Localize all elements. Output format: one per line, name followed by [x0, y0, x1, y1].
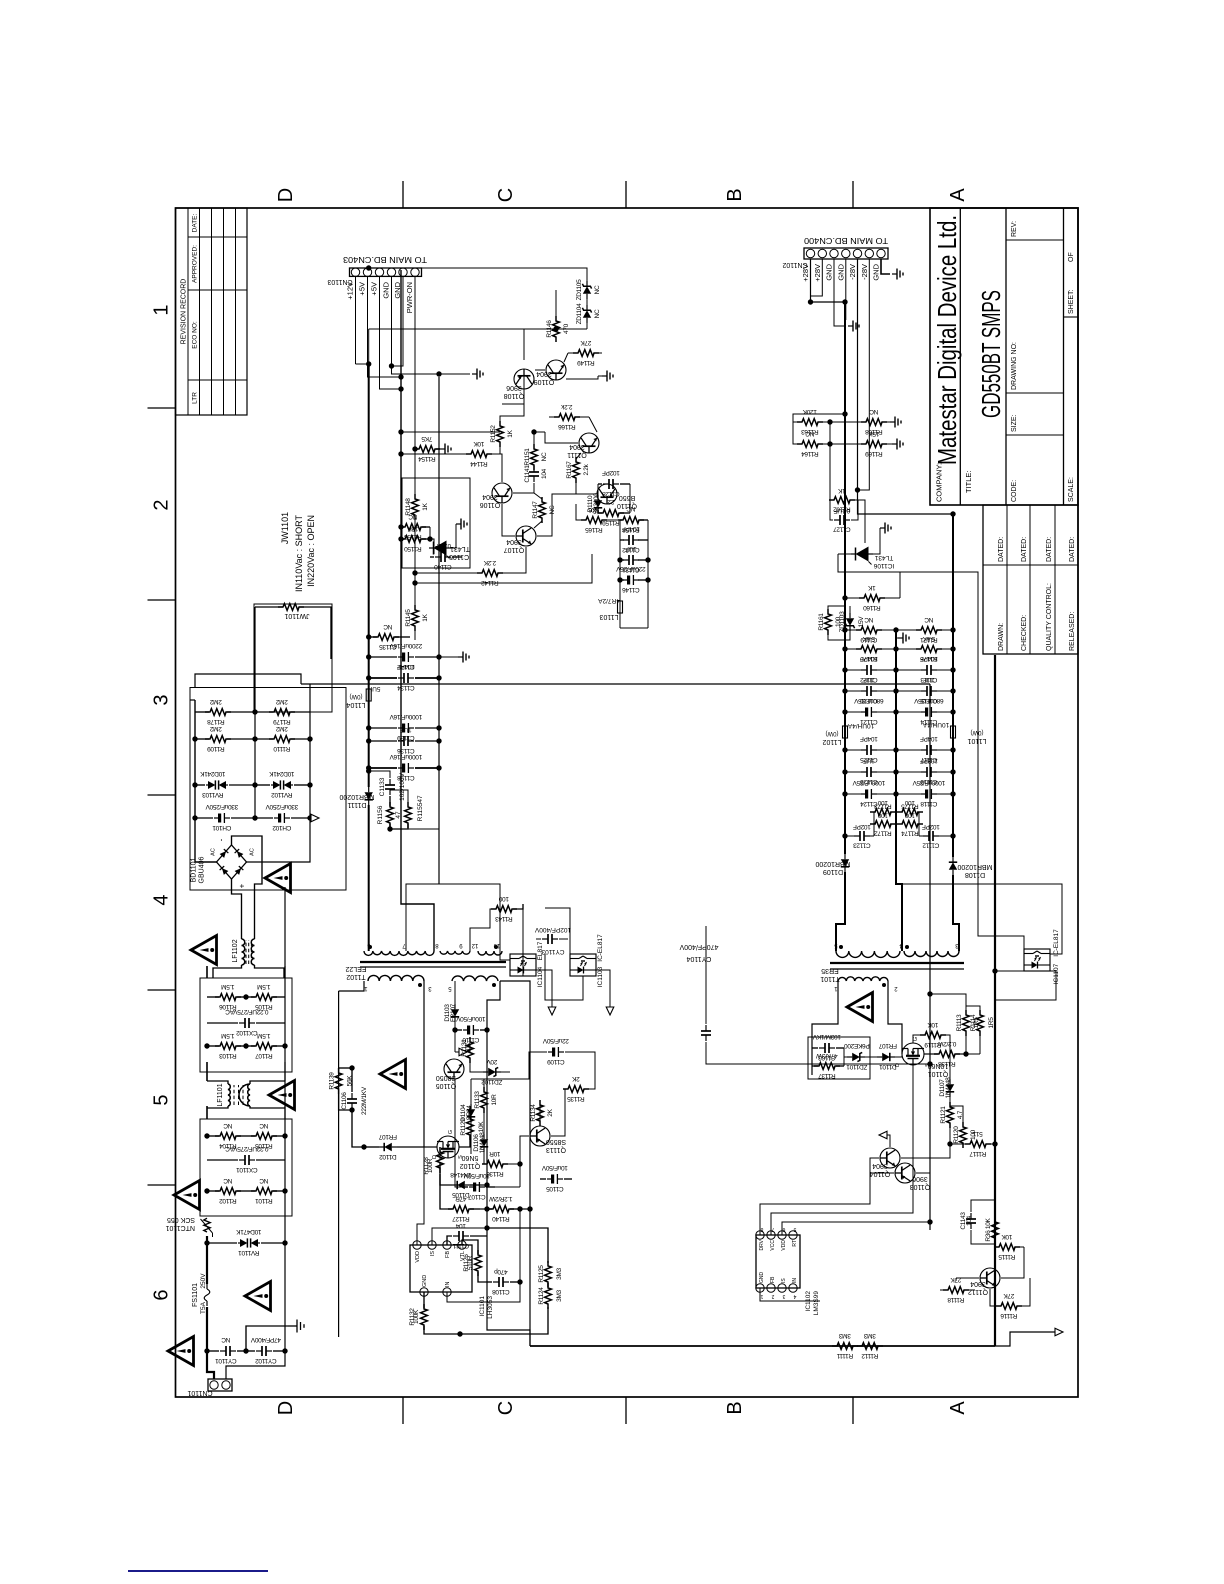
svg-text:Q1106: Q1106: [480, 501, 501, 508]
svg-text:-: -: [217, 838, 226, 841]
svg-text:10D471K: 10D471K: [236, 1228, 262, 1235]
svg-text:C1115: C1115: [920, 697, 937, 704]
svg-text:2.2K: 2.2K: [483, 559, 496, 566]
svg-text:56K: 56K: [347, 1075, 354, 1087]
wire LF1101 to RC box: [206, 1062, 208, 1081]
svg-text:GND: GND: [422, 1275, 428, 1287]
svg-text:3M3: 3M3: [556, 1267, 563, 1279]
capacitor C1127 0.1UF: [830, 500, 833, 520]
wire bottom bus rail: [994, 655, 996, 1346]
svg-text:Q1113: Q1113: [546, 1146, 566, 1153]
snubber branch R1156 C1133: [366, 768, 371, 773]
svg-text:1.5M: 1.5M: [221, 983, 234, 990]
svg-text:CHECKED:: CHECKED:: [1021, 615, 1028, 651]
svg-text:DATED:: DATED:: [1069, 537, 1076, 562]
svg-text:2M2: 2M2: [209, 725, 221, 732]
svg-text:R1164: R1164: [801, 450, 819, 457]
svg-text:R1174: R1174: [901, 830, 919, 837]
svg-text:P6KE200: P6KE200: [844, 1042, 870, 1049]
svg-text:ER35: ER35: [821, 967, 839, 974]
warning triangle below LF1101: [269, 1081, 295, 1110]
filter capacitor C1134 104PF: [369, 677, 397, 679]
svg-text:5UH: 5UH: [367, 685, 380, 692]
svg-text:IC-EL817: IC-EL817: [1053, 929, 1060, 957]
svg-text:+28V: +28V: [813, 264, 822, 282]
svg-text:6: 6: [151, 1289, 173, 1300]
svg-text:R1152: R1152: [490, 425, 497, 443]
svg-text:R1160: R1160: [863, 604, 881, 611]
resistor R1127 47R: [470, 1208, 480, 1210]
svg-text:10R: 10R: [489, 1150, 501, 1157]
zener ZD1105 NC: [582, 281, 591, 299]
zener ZD1103 15V: [845, 613, 854, 631]
svg-text:R1154: R1154: [418, 455, 436, 462]
svg-text:2K: 2K: [571, 1075, 579, 1082]
svg-text:100K: 100K: [413, 1309, 420, 1324]
controller IC1102 LM3S99: [756, 1235, 800, 1288]
wire B+ to T1101 primary pin1: [812, 981, 838, 1075]
svg-text:Q1107: Q1107: [504, 546, 525, 553]
resistor R1135 2K: [563, 1086, 589, 1093]
scale sheet cells: [1064, 316, 1079, 318]
feedback arrow 2: [596, 970, 610, 1010]
gate resistor R1129 10K: [459, 1136, 470, 1147]
svg-text:R1159: R1159: [602, 519, 620, 526]
svg-text:DATED:: DATED:: [1021, 537, 1028, 562]
svg-text:C: C: [495, 1401, 517, 1415]
resistor R1132 100K: [423, 1292, 425, 1308]
svg-text:3M3: 3M3: [556, 1289, 563, 1301]
svg-text:ZD1105: ZD1105: [576, 279, 583, 301]
+5V rail: [400, 270, 402, 640]
optocoupler IC1107 IC-EL817: [1024, 949, 1050, 971]
rectifier D1108 MBR10200: [949, 857, 957, 875]
transformer T1102 primary winding: [368, 975, 424, 981]
output ground symbol: [898, 633, 909, 644]
svg-text:CODE:: CODE:: [1011, 480, 1018, 502]
svg-text:DRAWING NO:: DRAWING NO:: [1011, 342, 1018, 390]
svg-text:D1111: D1111: [347, 801, 366, 808]
svg-text:10K: 10K: [1001, 1233, 1013, 1240]
svg-text:D1109: D1109: [823, 868, 843, 875]
regulator divider R1163 120K: [797, 419, 823, 426]
resistor R1142 2.2K: [477, 570, 503, 577]
warning triangle near fuse: [245, 1282, 271, 1311]
wire Q1102 drain: [424, 1146, 437, 1148]
wire snubber to ground rail: [390, 828, 439, 830]
svg-text:3: 3: [782, 1293, 785, 1299]
source resistor R1138 0.2/2W: [924, 1053, 938, 1055]
svg-text:B: B: [724, 1401, 746, 1414]
svg-text:FR107: FR107: [878, 1042, 897, 1049]
diode D1104 SR34: [470, 1079, 472, 1104]
svg-text:+28V: +28V: [801, 264, 810, 282]
transformer T1101 core: [830, 968, 964, 970]
shunt regulator IC1106 TL431: [851, 547, 873, 565]
resistor R1145 1K inline: [414, 629, 416, 640]
resistor R1161 100: [825, 609, 832, 635]
capacitor C1108 470p: [487, 1281, 492, 1283]
svg-text:R1103: R1103: [219, 1052, 237, 1059]
capacitor C1132 104PF: [620, 539, 624, 541]
resistor R1159 22: [598, 512, 602, 514]
resistor R1168 NC: [861, 419, 887, 426]
clamp diode D1102 FR107: [397, 1146, 424, 1148]
svg-text:Q1101: Q1101: [928, 1070, 949, 1077]
filter capacitor C1142 2200uF/16V: [369, 656, 397, 658]
svg-text:C1135: C1135: [379, 643, 397, 650]
svg-text:2: 2: [151, 499, 173, 510]
svg-text:IS: IS: [430, 1251, 436, 1257]
svg-text:DATED:: DATED:: [998, 537, 1005, 562]
svg-text:B: B: [724, 188, 746, 201]
svg-text:4: 4: [151, 894, 173, 905]
svg-text:3904: 3904: [970, 1280, 986, 1287]
resistor R1118 27K: [943, 1287, 969, 1294]
svg-text:1.5M: 1.5M: [221, 1032, 234, 1039]
svg-text:FB: FB: [445, 1251, 451, 1258]
svg-text:Q1102: Q1102: [460, 1162, 481, 1169]
capacitor C1143 104: [966, 1213, 976, 1229]
mosfet Q1101 10N60: [902, 1043, 924, 1065]
PWR-ON rail R1148 1K inline: [414, 518, 416, 607]
resistor R1128 100R: [439, 1163, 441, 1174]
snubber resistor R1155 47: [390, 824, 408, 829]
svg-text:3904: 3904: [506, 538, 522, 545]
svg-text:C1107: C1107: [468, 1193, 486, 1200]
svg-text:LTR: LTR: [192, 392, 199, 404]
CN1102 wires: [811, 259, 846, 302]
svg-text:1.5M: 1.5M: [257, 1032, 270, 1039]
resistor R1167 2.2k: [573, 457, 580, 483]
svg-text:SIZE:: SIZE:: [1011, 414, 1018, 432]
X-cap box: [200, 1119, 292, 1216]
wire IC1101 ground leg: [447, 1209, 520, 1302]
clamp resistor R1139 56K: [339, 1067, 352, 1069]
svg-text:27K: 27K: [1003, 1292, 1015, 1299]
svg-text:NC: NC: [259, 1177, 268, 1184]
ground rail: [895, 630, 897, 846]
resistor R1116 27K: [996, 1303, 1022, 1310]
capacitor C1117 104PF: [896, 749, 922, 751]
svg-text:10: 10: [493, 942, 500, 948]
svg-text:2: 2: [771, 1293, 774, 1299]
svg-text:47R: 47R: [455, 1195, 467, 1202]
resistor R1124 3M3: [460, 1307, 548, 1334]
rectifier diode D1111 MBR10200 inline +12V rail: [368, 805, 370, 951]
optocoupler IC1103 IC-EL817: [570, 954, 596, 976]
svg-text:R1155: R1155: [417, 802, 424, 821]
svg-text:2M2: 2M2: [275, 698, 287, 705]
svg-text:330uF/250V: 330uF/250V: [205, 803, 238, 810]
svg-text:R1143: R1143: [495, 915, 513, 922]
wire T1101 pin5 to +28 rail: [836, 872, 845, 951]
svg-text:3: 3: [151, 694, 173, 705]
connector CN1102: [804, 248, 888, 259]
svg-text:100: 100: [904, 799, 915, 806]
svg-text:C1127: C1127: [833, 526, 851, 533]
capacitor C1140 0.1UF: [430, 556, 434, 558]
capacitor C1115 1UF: [896, 690, 922, 692]
svg-text:R1111: R1111: [836, 1352, 853, 1359]
svg-text:C1123: C1123: [853, 842, 871, 849]
svg-text:R1145: R1145: [405, 609, 412, 627]
resistor R1144 10K: [466, 451, 492, 458]
svg-text:IC1105: IC1105: [449, 553, 471, 560]
capacitor CY1102 47PF/400V: [246, 1350, 255, 1352]
resistor R1133 10R: [481, 1087, 488, 1113]
signature table: [983, 505, 1078, 654]
zone ticks top edge: [148, 1184, 176, 1186]
code size drawing-no rev cells: [1006, 434, 1064, 436]
bulk capacitor CH101 330uF/250V: [195, 817, 213, 819]
resistor R1125 3M3: [547, 1284, 549, 1286]
svg-text:102PF: 102PF: [853, 823, 871, 830]
svg-text:NC: NC: [594, 309, 601, 318]
transistor Q1112 3904: [980, 1268, 1000, 1288]
resistor R1150 13K: [401, 538, 404, 540]
svg-text:2K: 2K: [547, 1108, 554, 1116]
svg-text:C1117: C1117: [920, 756, 937, 763]
svg-text:JW1101: JW1101: [280, 512, 290, 544]
svg-text:7: 7: [771, 1226, 774, 1232]
resistor R1126 510R: [462, 1240, 478, 1254]
svg-text:3904: 3904: [569, 443, 585, 450]
wire X-box to LF1101: [206, 1106, 208, 1119]
svg-text:R1166: R1166: [558, 423, 576, 430]
wire to earth ground: [246, 1326, 288, 1351]
svg-text:VDD: VDD: [415, 1251, 421, 1263]
mid rail wire to JW1101: [254, 712, 256, 818]
svg-text:R1150: R1150: [404, 545, 422, 552]
svg-text:R1138: R1138: [938, 1060, 956, 1067]
capacitor C1141 104: [529, 466, 539, 482]
gate drive network D1107 R1121 R1120: [942, 1035, 950, 1079]
transistor Q1110 B550: [597, 484, 617, 504]
svg-text:7K5: 7K5: [421, 435, 432, 442]
svg-text:1: 1: [151, 304, 173, 315]
diode D1106 1N4148: [483, 1111, 485, 1134]
svg-text:2.2k: 2.2k: [583, 463, 590, 475]
svg-text:C1119: C1119: [860, 636, 877, 643]
resistor R1149 27K: [573, 350, 599, 357]
svg-text:C1114: C1114: [920, 718, 937, 725]
svg-text:L1104: L1104: [346, 701, 365, 708]
svg-text:AC: AC: [250, 848, 256, 856]
varistor RV1101 10D471K: [207, 1242, 237, 1244]
svg-text:510R: 510R: [467, 1255, 474, 1270]
svg-text:R1179: R1179: [273, 718, 291, 725]
resistor R1110 2M2: [255, 738, 273, 740]
svg-text:R1113: R1113: [956, 1014, 963, 1031]
jumper JW1101: [255, 606, 283, 608]
svg-text:1.5M: 1.5M: [257, 983, 270, 990]
svg-text:2M2: 2M2: [209, 698, 221, 705]
resistor R1105b NC: [246, 1135, 255, 1137]
resistor R1165 5K6: [581, 517, 607, 524]
thermistor NTC1101 SCK 055: [201, 1218, 213, 1237]
ground Q1109 emitter: [602, 371, 613, 382]
svg-text:1K: 1K: [867, 584, 875, 591]
svg-text:RELEASED:: RELEASED:: [1069, 612, 1076, 651]
earth ground: [288, 1320, 304, 1333]
svg-text:RV1102: RV1102: [271, 791, 293, 798]
clamp capacitor C1106 222M/1KV: [352, 1110, 364, 1147]
svg-text:NC: NC: [223, 1177, 232, 1184]
svg-text:RT: RT: [792, 1240, 798, 1247]
svg-text:C1122: C1122: [860, 676, 878, 683]
resistor R1143 100: [470, 909, 495, 951]
connector CN1103: [350, 268, 422, 276]
svg-text:10K: 10K: [473, 440, 485, 447]
inductor L1101 10UH/4A inline -28: [951, 726, 956, 738]
resistor R1134 2K: [537, 1100, 544, 1126]
resistor R1131 10K: [469, 1044, 471, 1052]
resistor R1106 1.5M: [207, 996, 219, 998]
svg-text:3906: 3906: [912, 1175, 928, 1182]
svg-text:C1112: C1112: [922, 842, 939, 849]
wire primary return T1102: [500, 981, 530, 1209]
svg-text:104: 104: [966, 1215, 973, 1226]
resistor R1109 2M2: [195, 738, 209, 740]
line filter LF1101: [207, 1106, 228, 1108]
B minus net arrow below CH102: [310, 817, 313, 819]
svg-text:R1140: R1140: [492, 1215, 510, 1222]
svg-text:BD1101: BD1101: [191, 858, 198, 883]
svg-text:IC1101: IC1101: [479, 1296, 486, 1317]
capacitor C1109 22uF/50V: [548, 1047, 564, 1057]
transistor Q1105 S8050: [444, 1059, 464, 1079]
svg-text:IC1106: IC1106: [873, 562, 894, 569]
svg-text:GND: GND: [825, 263, 834, 280]
svg-text:B550: B550: [619, 494, 635, 501]
wires source network to IC1101: [480, 1208, 487, 1210]
svg-text:R1127: R1127: [452, 1215, 470, 1222]
svg-text:C1134: C1134: [397, 684, 415, 691]
zone ticks right edge: [402, 181, 404, 208]
svg-text:3904: 3904: [536, 370, 552, 377]
svg-text:T1102: T1102: [346, 973, 365, 980]
svg-text:3904: 3904: [872, 1162, 888, 1169]
svg-text:TL431: TL431: [874, 554, 893, 561]
svg-text:100: 100: [835, 616, 842, 627]
svg-text:10R: 10R: [491, 1094, 498, 1106]
svg-text:Matestar Digital Device Ltd.: Matestar Digital Device Ltd.: [932, 215, 962, 465]
svg-text:FS1101: FS1101: [192, 1283, 199, 1307]
wire sense to ground bus: [930, 994, 966, 1006]
svg-text:3M3: 3M3: [863, 1332, 875, 1339]
svg-text:R1105: R1105: [255, 1142, 273, 1149]
B minus rail exit with arrow: [309, 712, 311, 818]
svg-text:104: 104: [455, 1222, 466, 1229]
svg-text:DATED:: DATED:: [1046, 537, 1053, 562]
warning triangle in bridge box: [265, 864, 291, 893]
svg-text:A: A: [947, 188, 969, 202]
wire primary bus vertical: [301, 683, 930, 685]
resistor R1152 1K: [497, 421, 504, 447]
line filter LF1102: [213, 965, 242, 978]
resistor R1117 511: [965, 1141, 991, 1148]
svg-text:R1105: R1105: [255, 1003, 273, 1010]
net arrow drive: [884, 1135, 890, 1147]
svg-text:R1153: R1153: [404, 533, 422, 540]
svg-text:C1132: C1132: [622, 546, 640, 553]
transistor Q1107 3904: [516, 526, 536, 546]
wires drive transistors: [901, 1144, 950, 1158]
capacitor C1111 104: [447, 1236, 452, 1245]
wire CN1101 pin2 to N rail: [226, 887, 285, 1379]
svg-text:47: 47: [417, 795, 424, 803]
bulk capacitor CH102 330uF/250V: [255, 817, 273, 819]
bridge rectifier BD1101 GBU406: [217, 845, 247, 879]
junction +12V rail to regulation divider: [366, 361, 371, 366]
svg-text:C1125: C1125: [860, 756, 878, 763]
wires IC1107: [995, 970, 1024, 972]
svg-text:GND: GND: [759, 1272, 765, 1284]
svg-text:FB: FB: [770, 1276, 776, 1283]
warning triangle in T1102 primary loop: [380, 1060, 406, 1089]
resistor R1147 NC: [539, 497, 546, 523]
svg-text:GD550BT SMPS: GD550BT SMPS: [976, 290, 1006, 418]
resistor R1130 10R: [482, 1161, 508, 1168]
transistor Q1109 3904: [546, 360, 566, 380]
control box around IC1105: [402, 478, 470, 568]
wire IC1102 ground: [760, 1288, 820, 1301]
svg-text:DATE:: DATE:: [192, 213, 199, 232]
warning triangle in T1101 primary: [847, 993, 873, 1022]
svg-text:R1133: R1133: [474, 1091, 481, 1109]
svg-text:470p: 470p: [494, 1268, 508, 1275]
fuse FS1101 T5A 250V: [204, 1284, 210, 1306]
resistor R1107 1.5M: [246, 1045, 255, 1047]
svg-text:GND: GND: [872, 263, 881, 280]
resistor R1170 5.6K: [845, 648, 860, 650]
wire fuse to varistor: [206, 1236, 208, 1284]
filter capacitor C1138 1000uF/16V: [369, 767, 397, 769]
svg-text:S8550: S8550: [546, 1138, 566, 1145]
svg-text:IN220Vac : OPEN: IN220Vac : OPEN: [306, 515, 316, 587]
ground rail of standby output: [438, 377, 440, 884]
svg-text:LF1101: LF1101: [217, 1083, 224, 1106]
transformer T1102 core: [360, 966, 506, 968]
snubber C1112 102PF R1174 R1175: [950, 833, 955, 838]
resistor R1102 NC: [207, 1190, 219, 1192]
capacitor C1120 1UF: [845, 690, 862, 692]
svg-text:A: A: [947, 1401, 969, 1415]
svg-text:(0W): (0W): [971, 729, 984, 735]
warning triangle near NTC box: [174, 1181, 200, 1210]
svg-text:C1139: C1139: [397, 734, 415, 741]
svg-text:NC: NC: [541, 452, 548, 461]
svg-text:R1107: R1107: [255, 1052, 273, 1059]
wire T1101 pin2 to drain: [888, 981, 902, 1054]
svg-text:LF1102: LF1102: [232, 939, 239, 962]
svg-text:R1161: R1161: [818, 613, 825, 631]
svg-text:R1139: R1139: [329, 1072, 336, 1090]
resistor R1160 1K: [859, 595, 885, 602]
varistor RV1103 10D241K: [195, 784, 205, 786]
clamp diode D1101 FR107: [870, 1056, 879, 1058]
svg-text:+5V: +5V: [358, 282, 367, 296]
svg-text:R1106: R1106: [219, 1003, 237, 1010]
zener ZD1101 P6KE200: [844, 1056, 848, 1058]
resistor R1151 NC: [531, 444, 538, 470]
svg-text:22uF/50V: 22uF/50V: [542, 1037, 569, 1044]
svg-text:VDD: VDD: [781, 1240, 787, 1251]
svg-text:R1109: R1109: [207, 745, 225, 752]
svg-text:L1101: L1101: [967, 737, 986, 744]
sheet border frame: [176, 208, 1079, 1397]
